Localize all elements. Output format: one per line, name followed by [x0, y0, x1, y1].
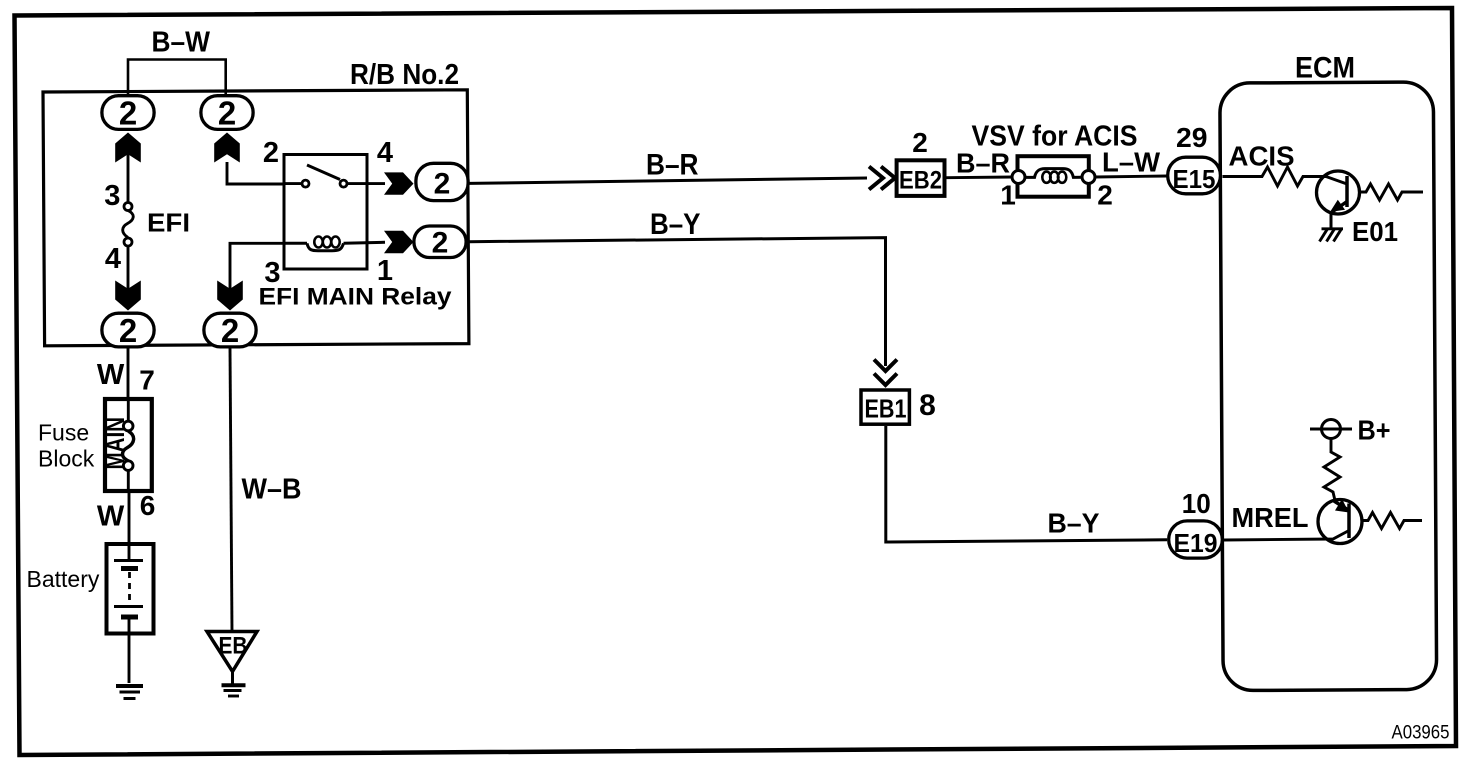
svg-text:4: 4: [377, 137, 393, 169]
arrow down to bottom second terminal: [217, 281, 243, 311]
fuse MAIN: [123, 399, 134, 491]
fuse block box: [105, 399, 152, 491]
svg-text:2: 2: [263, 137, 279, 169]
svg-text:2: 2: [221, 312, 239, 349]
relay block box R/B No.2: [43, 90, 469, 346]
fuse EFI: [123, 203, 134, 247]
svg-text:W: W: [97, 359, 125, 391]
svg-text:Battery: Battery: [27, 566, 100, 592]
svg-text:7: 7: [139, 365, 155, 396]
svg-text:6: 6: [140, 490, 156, 521]
arrow right coil output: [384, 231, 414, 253]
transistor Q1: [1317, 171, 1360, 214]
wire to EFI fuse: [127, 152, 130, 203]
relay box EFI MAIN Relay: [284, 155, 367, 270]
connector terminal 2 (bottom second): [204, 312, 256, 349]
svg-text:EB1: EB1: [865, 394, 907, 424]
relay coil: [284, 237, 385, 251]
svg-text:2: 2: [434, 168, 451, 201]
svg-text:29: 29: [1176, 122, 1208, 153]
svg-text:1: 1: [377, 255, 393, 287]
svg-text:W–B: W–B: [242, 474, 302, 506]
wire B-Y from EB1 to E19: [886, 426, 1167, 542]
junction connector EB2: [897, 160, 945, 196]
svg-text:B–Y: B–Y: [650, 208, 701, 241]
svg-text:8: 8: [919, 389, 936, 422]
arrow down to bottom left terminal: [115, 281, 141, 311]
svg-text:E01: E01: [1352, 216, 1398, 247]
ECM box: [1220, 82, 1437, 691]
svg-text:ECM: ECM: [1295, 52, 1355, 85]
ground below battery: [116, 686, 143, 699]
svg-text:EB2: EB2: [899, 167, 942, 195]
svg-text:EFI: EFI: [147, 208, 190, 238]
wire relay pin 2 to second terminal: [227, 162, 283, 184]
svg-text:MREL: MREL: [1232, 502, 1309, 533]
svg-text:2: 2: [432, 227, 449, 260]
arrow right switch output: [384, 172, 414, 194]
svg-text:2: 2: [119, 312, 137, 349]
ground below EB: [222, 685, 246, 696]
connector E19: [1169, 521, 1223, 558]
svg-text:A03965: A03965: [1392, 723, 1450, 744]
resistor at ACIS input: [1223, 167, 1327, 186]
wire EB2 to VSV: [947, 176, 1014, 180]
svg-text:B–W: B–W: [152, 27, 211, 59]
svg-text:R/B No.2: R/B No.2: [350, 59, 459, 91]
transistor Q2: [1318, 499, 1362, 544]
svg-text:E15: E15: [1173, 164, 1216, 194]
svg-text:Fuse: Fuse: [38, 420, 89, 446]
B+ terminal: [1310, 420, 1352, 439]
svg-text:Block: Block: [38, 446, 95, 472]
arrow up into left terminal: [115, 133, 141, 163]
resistor Q1 base: [1360, 184, 1424, 200]
connector terminal 2 (coil output): [414, 226, 466, 260]
svg-text:ACIS: ACIS: [1229, 141, 1295, 172]
solenoid valve VSV for ACIS: [1012, 156, 1095, 197]
wire below fuse: [127, 246, 130, 291]
wire MREL to transistor Q2: [1224, 531, 1349, 541]
svg-text:10: 10: [1182, 488, 1211, 519]
connector terminal 2 (top second): [201, 95, 253, 132]
svg-text:2: 2: [1097, 180, 1113, 211]
connector terminal 2 (top left): [102, 95, 154, 132]
svg-text:EB: EB: [219, 633, 248, 660]
label Fuse Block: [38, 420, 95, 472]
svg-text:4: 4: [105, 243, 121, 275]
chevron arrows into EB2: [869, 167, 895, 190]
wire W to fuse block: [127, 349, 130, 400]
svg-text:L–W: L–W: [1102, 147, 1161, 178]
ground point EB triangle: [207, 632, 257, 685]
ground chassis E01: [1320, 229, 1344, 242]
junction connector EB1: [861, 390, 909, 424]
svg-text:B–Y: B–Y: [1048, 508, 1100, 539]
wire B-W jumper loop: [128, 60, 226, 96]
chevron arrows into EB1: [874, 360, 897, 386]
svg-text:1: 1: [1000, 180, 1016, 211]
connector terminal 2 (switch output): [416, 163, 468, 200]
resistor B+ feed: [1324, 440, 1340, 501]
svg-text:2: 2: [218, 95, 236, 132]
wire relay pin 3 to bottom second terminal: [230, 243, 284, 291]
connector E15: [1168, 157, 1221, 194]
svg-text:B–R: B–R: [646, 149, 699, 182]
wire W to battery: [128, 491, 131, 558]
svg-text:2: 2: [912, 127, 928, 158]
battery: [107, 544, 154, 683]
wire B-R to EB2: [470, 178, 868, 183]
relay switch contact: [284, 165, 385, 187]
wire L-W to E15: [1095, 176, 1167, 177]
connector terminal 2 (bottom left): [102, 312, 154, 349]
svg-text:B+: B+: [1358, 415, 1391, 446]
wire B-Y to EB1: [469, 238, 886, 366]
svg-text:W: W: [97, 501, 125, 533]
svg-text:2: 2: [119, 95, 137, 132]
wire W-B to EB ground: [230, 349, 232, 632]
wire Q1 emitter to ground: [1330, 214, 1333, 231]
arrow up into second terminal: [214, 133, 240, 163]
svg-text:EFI MAIN Relay: EFI MAIN Relay: [259, 284, 453, 311]
resistor Q2 base: [1362, 513, 1422, 529]
svg-text:3: 3: [104, 180, 120, 212]
svg-text:E19: E19: [1174, 528, 1218, 558]
